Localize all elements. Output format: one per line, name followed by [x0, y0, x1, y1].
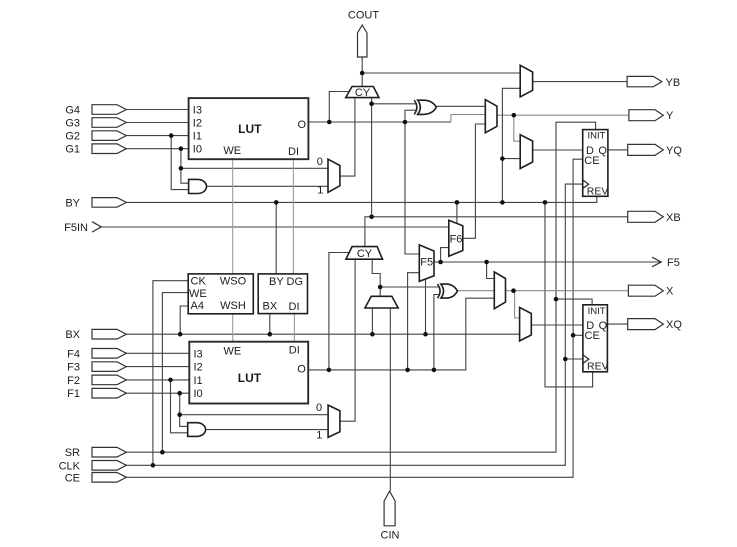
wire mux M2 output riser to CY0	[340, 259, 355, 421]
output pad YB	[627, 76, 662, 86]
wire F2 to I1	[126, 379, 189, 381]
wire AND1 output to mux M1 1-input	[207, 185, 329, 187]
wire F-O riser to XOR2 lower input	[434, 295, 439, 370]
node Y branch	[512, 113, 517, 118]
wire X output line	[506, 290, 629, 292]
svg-text:1: 1	[317, 184, 323, 196]
mux YQ	[520, 135, 532, 169]
clock triangle XQ FF	[583, 355, 589, 364]
svg-text:CIN: CIN	[381, 530, 400, 542]
wire XOR2 output to X mux	[457, 290, 494, 292]
wire YB mux output	[533, 81, 628, 83]
wire CLK branch to XQ FF CK	[565, 358, 583, 360]
svg-text:BX: BX	[263, 300, 278, 312]
svg-text:I2: I2	[194, 362, 203, 374]
node SR to XQ INIT	[554, 297, 559, 302]
svg-text:F5: F5	[667, 257, 680, 269]
svg-text:Y: Y	[666, 110, 674, 122]
svg-text:0: 0	[316, 402, 322, 414]
output pad Y	[629, 110, 663, 121]
wire F5IN line to F6 input	[100, 226, 449, 228]
flip-flop YQ	[583, 130, 608, 197]
node BX to box	[268, 332, 273, 337]
svg-text:G4: G4	[65, 105, 80, 117]
mux XQ	[520, 307, 532, 341]
svg-text:Q: Q	[598, 145, 607, 157]
wire carry to YB mux	[362, 72, 520, 74]
wire I1 branch to AND gate	[171, 136, 188, 190]
svg-text:G3: G3	[65, 118, 80, 130]
gray connector WSH to F-LUT WE	[232, 314, 234, 342]
wire X branch down to XQ mux	[514, 291, 520, 318]
node F-O to CY0 select	[327, 368, 332, 373]
wire carry chain CY1 bottom to XB line	[371, 98, 373, 217]
write-select box CK/WE/A4 WSO/WSH	[188, 274, 253, 314]
node 0-line branch	[179, 166, 184, 171]
svg-text:REV: REV	[587, 185, 609, 197]
wire CLK riser to CK pin of write box	[153, 281, 188, 466]
wire CLK main line	[127, 184, 583, 465]
node BX to init mux	[370, 332, 375, 337]
mux X	[494, 272, 505, 309]
wire BX drop to init-mux input	[371, 308, 373, 334]
wire init-mux output branch to XOR2	[380, 286, 439, 288]
input pad BX	[92, 329, 126, 339]
input pad BY	[92, 198, 126, 208]
svg-text:I3: I3	[193, 105, 202, 117]
BY DG / BX DI box	[258, 274, 307, 314]
wire F-O riser to F5 lower input	[408, 273, 420, 370]
wire 0-input of mux M2	[180, 414, 328, 416]
mux Y	[485, 100, 497, 133]
svg-text:O: O	[297, 363, 306, 375]
node BX to A4	[178, 332, 183, 337]
svg-text:F5IN: F5IN	[64, 222, 88, 234]
wire BX riser to box BX pin	[269, 314, 271, 334]
XOR gate X2 (lower)	[441, 284, 458, 298]
mux M1 (upper LUT aux mux)	[328, 159, 340, 192]
svg-text:F3: F3	[67, 362, 80, 374]
output pad YQ	[628, 144, 664, 155]
node COUT branch	[360, 71, 365, 76]
svg-text:I3: I3	[194, 348, 203, 360]
svg-text:1: 1	[316, 429, 322, 441]
F5IN arrow	[92, 222, 101, 232]
carry mux CY1	[346, 87, 379, 98]
node BY to F6 select	[455, 200, 460, 205]
input pad F1	[92, 388, 126, 398]
wire CE main line	[127, 159, 583, 477]
wire SR branch to XQ FF INIT	[556, 299, 592, 305]
AND gate U2 (lower write decode)	[188, 423, 206, 437]
svg-text:F2: F2	[67, 375, 80, 387]
output pad XB	[628, 211, 664, 222]
wire XOR1 output to Y mux	[436, 105, 485, 107]
node init mux out to XOR2	[378, 285, 383, 290]
wire COUT vertical	[361, 57, 363, 87]
wire F1 to I0	[126, 392, 189, 394]
mux F5	[419, 245, 434, 282]
input pad F4	[92, 349, 126, 359]
svg-text:WSO: WSO	[220, 276, 247, 288]
carry init mux	[365, 296, 398, 308]
wire XQ FF Q output	[607, 323, 627, 325]
wire Y branch down to YQ mux	[514, 115, 520, 141]
wire I0 branch to AND gate	[181, 149, 189, 184]
node X branch	[511, 288, 516, 293]
wire F-LUT O output line	[308, 298, 494, 370]
wire G4 to I3	[126, 109, 188, 111]
node F-O to F5	[405, 368, 410, 373]
wire CE branch to XQ FF CE	[573, 334, 583, 336]
wire G2 to I1	[126, 135, 188, 137]
wire 0-input of mux M1	[181, 167, 328, 169]
svg-text:I0: I0	[194, 388, 203, 400]
wire G1 to I0	[126, 148, 188, 150]
input pad CLK	[92, 461, 126, 471]
wire BX main line	[127, 333, 520, 335]
wire CY0 select from F-O	[329, 253, 350, 370]
svg-text:F4: F4	[67, 348, 80, 360]
node F-I0 branch	[177, 391, 182, 396]
clock triangle YQ FF	[583, 180, 589, 189]
svg-text:I0: I0	[193, 144, 202, 156]
svg-text:LUT: LUT	[238, 122, 262, 136]
node CLK to XQ CK	[563, 357, 568, 362]
output pad XQ	[628, 319, 664, 330]
wire BY riser to YB mux and YQ mux	[502, 88, 520, 202]
wire Y output line	[497, 114, 629, 116]
svg-text:COUT: COUT	[348, 10, 379, 22]
svg-text:F1: F1	[67, 388, 80, 400]
svg-text:O: O	[297, 119, 306, 131]
LUT G (upper)	[189, 98, 309, 159]
svg-text:CY: CY	[357, 248, 373, 260]
svg-text:DI: DI	[289, 301, 300, 313]
node F5 to X mux	[484, 260, 489, 265]
svg-text:F5: F5	[420, 256, 433, 268]
wire BX riser to F5 select	[425, 279, 427, 334]
wire mux M1 output riser to CY1	[340, 98, 355, 177]
svg-text:CE: CE	[65, 472, 80, 484]
svg-text:YB: YB	[666, 77, 681, 89]
input pad SR	[92, 447, 126, 457]
svg-text:YQ: YQ	[666, 145, 682, 157]
node BY to YQ mux	[500, 156, 505, 161]
gray connector WSO to G-LUT WE	[232, 159, 234, 274]
svg-text:WE: WE	[224, 346, 242, 358]
svg-text:0: 0	[317, 156, 323, 168]
wire BX riser to A4 pin of write box	[180, 306, 188, 334]
input pad CE	[92, 473, 126, 483]
svg-text:SR: SR	[65, 447, 80, 459]
svg-text:WSH: WSH	[220, 300, 246, 312]
carry mux CY0	[346, 247, 383, 260]
wire O drop to XOR1 lower input and F5 upper input	[405, 110, 419, 254]
node F-I1 branch	[168, 378, 173, 383]
F5 output arrow	[652, 257, 661, 267]
svg-text:DI: DI	[289, 345, 300, 357]
wire F-I1 branch to AND2	[171, 380, 188, 433]
mux M2 (lower LUT aux mux)	[328, 405, 340, 437]
node BX to F5 select	[423, 332, 428, 337]
wire AND2 output to mux M2 1-input	[206, 429, 328, 431]
gray connector DG to G-LUT DI	[292, 159, 294, 274]
wire CIN riser to init-mux input	[389, 308, 391, 491]
wire G-LUT O output line	[308, 121, 451, 123]
svg-text:DI: DI	[288, 146, 299, 158]
svg-text:REV: REV	[587, 361, 609, 373]
node BY to XQ REV	[543, 200, 548, 205]
svg-text:Q: Q	[599, 320, 608, 332]
wire SR main line	[127, 122, 596, 452]
wire F3 to I2	[126, 366, 189, 368]
wire XB line from CY0 carry out	[365, 217, 628, 247]
wire SR riser to WE pin of write box	[162, 293, 188, 453]
input pad G3	[92, 118, 126, 128]
wire F-I0 branch to AND2	[180, 393, 188, 426]
node BY to YB riser	[500, 200, 505, 205]
wire F4 to I3	[126, 352, 189, 354]
svg-text:WE: WE	[223, 145, 241, 157]
wire CY0 jog to init-mux output and XOR2 upper input	[372, 259, 380, 296]
node O to XOR1/F5	[403, 120, 408, 125]
svg-text:I2: I2	[193, 118, 202, 130]
wire G3 to I2	[126, 122, 188, 124]
wire BY branch to YQ mux lower input	[502, 158, 520, 160]
svg-text:F6: F6	[450, 233, 463, 245]
wire YQ mux output to FF D	[533, 149, 583, 151]
wire O step to Y-mux middle input	[451, 115, 485, 123]
node F-O to XOR2	[432, 368, 437, 373]
svg-text:I1: I1	[193, 131, 202, 143]
wire XQ mux output to FF D	[531, 324, 583, 326]
svg-text:CLK: CLK	[59, 460, 81, 472]
svg-text:I1: I1	[194, 375, 203, 387]
wire BY drop to box BY pin	[275, 202, 277, 274]
wire YQ FF Q output	[608, 149, 628, 151]
node I0 branch	[179, 146, 184, 151]
XOR gate X1 (upper)	[418, 100, 437, 114]
node O to CY1 select	[327, 120, 332, 125]
svg-text:INIT: INIT	[588, 131, 606, 142]
input pad G4	[92, 105, 126, 115]
svg-text:CY: CY	[355, 87, 371, 99]
output pad X	[628, 285, 663, 296]
svg-text:A4: A4	[191, 300, 204, 312]
node BY to box	[274, 200, 279, 205]
svg-text:XB: XB	[666, 212, 681, 224]
node SR to WE riser	[160, 450, 165, 455]
gray connector box DI to F-LUT DI	[293, 314, 295, 342]
input pad G2	[92, 131, 126, 141]
input pad F3	[92, 362, 126, 372]
wire BY drop to XQ FF REV	[545, 202, 593, 387]
svg-text:WE: WE	[189, 288, 207, 300]
svg-text:G1: G1	[65, 144, 80, 156]
wire F6 output riser to Y mux third input	[463, 124, 486, 238]
flip-flop XQ	[583, 305, 608, 372]
wire F5 riser to F6 lower input	[441, 248, 449, 262]
wire carry branch to XOR1 upper input	[372, 103, 417, 105]
wire F5 drop to X mux upper input	[487, 262, 495, 279]
svg-text:INIT: INIT	[588, 306, 606, 317]
node F 0-line branch	[177, 412, 182, 417]
node CLK to CK riser	[151, 463, 156, 468]
mux YB	[520, 65, 532, 97]
svg-text:XQ: XQ	[666, 319, 682, 331]
wire CY1 select from O	[329, 92, 349, 123]
CIN connector	[384, 491, 395, 526]
wire F5 output line	[434, 261, 661, 263]
svg-text:BY DG: BY DG	[269, 276, 303, 288]
svg-text:CE: CE	[584, 155, 599, 167]
svg-text:X: X	[666, 286, 674, 298]
svg-text:CE: CE	[585, 330, 600, 342]
node CE to XQ CE	[571, 333, 576, 338]
svg-text:BX: BX	[65, 329, 80, 341]
svg-text:BY: BY	[65, 197, 80, 209]
COUT connector	[358, 25, 368, 57]
node F5 to F6	[438, 260, 443, 265]
node XB tap	[369, 215, 374, 220]
input pad F2	[92, 375, 126, 385]
mux F6	[449, 220, 463, 256]
svg-text:LUT: LUT	[238, 371, 262, 385]
input pad G1	[92, 144, 126, 154]
svg-text:CK: CK	[191, 276, 207, 288]
node I1 branch	[169, 133, 174, 138]
LUT F (lower)	[189, 342, 308, 404]
wire BY main line	[127, 196, 597, 202]
node carry to XOR1	[369, 102, 374, 107]
svg-text:G2: G2	[65, 131, 80, 143]
AND gate U1 (upper write decode)	[189, 179, 207, 193]
wire BY drop to F6 select	[456, 202, 458, 223]
